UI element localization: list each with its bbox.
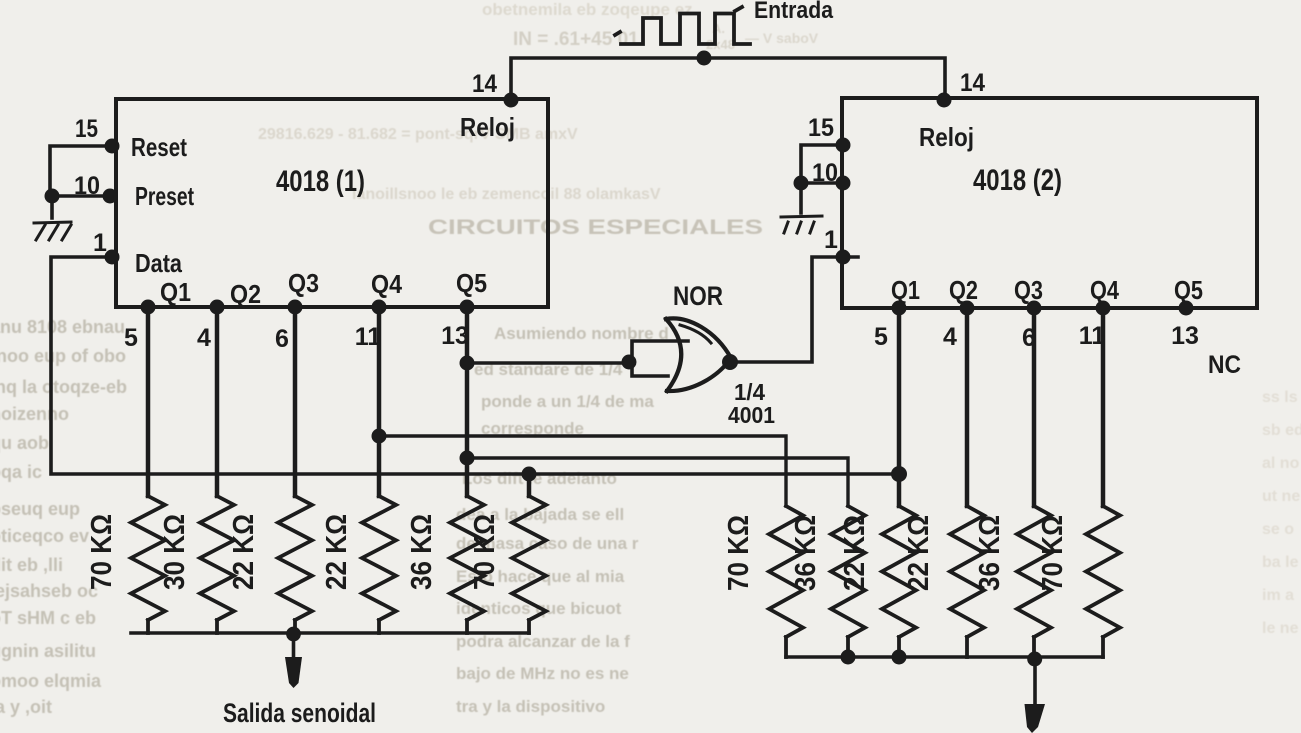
U2 output pin 11	[1079, 301, 1111, 351]
U1 output pin 13	[441, 300, 474, 351]
node sine output junction	[286, 627, 301, 642]
svg-text:36 KΩ: 36 KΩ	[406, 514, 438, 590]
svg-text:Entrada: Entrada	[754, 0, 834, 24]
U2 pin name Q5	[1174, 275, 1203, 305]
label Salida senoidal	[223, 698, 376, 728]
svg-text:ugnin asilitu: ugnin asilitu	[0, 641, 96, 661]
svg-text:1: 1	[824, 226, 838, 254]
svg-text:im a: im a	[1262, 587, 1294, 604]
U1 pin name Reloj	[460, 112, 515, 142]
svg-text:30 KΩ: 30 KΩ	[159, 514, 191, 590]
wire U2 Q4 to R12	[1101, 308, 1106, 506]
svg-text:Los dift le adelanto: Los dift le adelanto	[462, 469, 617, 488]
resistor R4 22 KΩ	[321, 496, 396, 633]
U1 pin 1 (Data)	[93, 229, 120, 265]
svg-text:5: 5	[124, 324, 138, 352]
U2 output pin 5	[874, 301, 906, 352]
svg-text:Preset: Preset	[135, 181, 194, 211]
wire NOR output to U2 pin1	[730, 257, 858, 362]
wire U1 Q2 to R2	[215, 307, 220, 496]
svg-text:70 KΩ: 70 KΩ	[723, 515, 755, 591]
svg-text:Q2: Q2	[949, 275, 978, 305]
U1 pin 14 (Reloj)	[472, 70, 519, 108]
U2 output pin 6	[1022, 301, 1041, 353]
svg-text:Q1: Q1	[160, 277, 191, 307]
svg-text:qu aob: qu aob	[0, 433, 49, 453]
svg-text:bseuq eup: bseuq eup	[0, 499, 80, 519]
U1 output pin 5	[124, 300, 155, 353]
svg-text:22 KΩ: 22 KΩ	[321, 514, 353, 590]
svg-text:CIRCUITOS ESPECIALES: CIRCUITOS ESPECIALES	[428, 216, 763, 239]
svg-text:tlit eb ,lli: tlit eb ,lli	[0, 555, 63, 575]
U1 pin name Q5	[456, 268, 487, 298]
svg-text:ut ne: ut ne	[1262, 488, 1300, 505]
svg-text:4001: 4001	[728, 402, 775, 428]
wire U1 pin15 to ground bus	[50, 146, 112, 196]
node clock input junction	[697, 51, 712, 66]
svg-text:Salida senoidal: Salida senoidal	[223, 698, 376, 728]
wire right bank bottom rail	[786, 655, 1103, 659]
svg-text:-noo eup of obo: -noo eup of obo	[0, 346, 126, 366]
U2 pin 15	[808, 114, 851, 153]
resistor R9 22 KΩ	[839, 506, 916, 657]
svg-text:29816.629 - 81.682 = pont-sqrV: 29816.629 - 81.682 = pont-sqrV SMB amxV	[258, 126, 578, 143]
U2 pin 14 (Reloj)	[937, 69, 986, 108]
svg-text:sb ed: sb ed	[1262, 422, 1301, 439]
ground symbol (U1)	[34, 222, 71, 240]
U2 pin name Q1	[891, 275, 920, 305]
node NOR input junction	[622, 355, 637, 370]
svg-text:ia y ,oit: ia y ,oit	[0, 697, 52, 717]
wire U1 Q5 to R5 and cross wire to R8	[467, 307, 848, 506]
resistor R1 70 KΩ	[86, 496, 165, 633]
label NC	[1208, 351, 1241, 379]
U2 pin 1	[824, 226, 851, 265]
svg-text:tra y la dispositivo: tra y la dispositivo	[456, 697, 605, 716]
resistor R10 22 KΩ	[903, 506, 984, 657]
svg-text:Q3: Q3	[1014, 275, 1043, 305]
U2 pin name Q4	[1090, 275, 1119, 305]
wire U2 pin15 to ground bus	[801, 145, 843, 183]
svg-text:Data: Data	[135, 248, 182, 278]
svg-text:14: 14	[960, 69, 985, 97]
U2 pin name Q2	[949, 275, 978, 305]
node right rail R9 junction	[892, 650, 907, 665]
svg-text:Q1: Q1	[891, 275, 920, 305]
svg-text:70 KΩ: 70 KΩ	[469, 514, 501, 590]
NOR gate U3 1/4 4001	[666, 281, 775, 428]
U1 pin 15 (Reset)	[75, 115, 120, 154]
U1 pin name Q3	[288, 268, 319, 298]
svg-text:anu 8108 ebnau: anu 8108 ebnau	[0, 317, 125, 337]
node U1 Q5 junction to R8	[460, 451, 475, 466]
svg-text:Reloj: Reloj	[460, 112, 515, 142]
resistor R5 36 KΩ	[406, 496, 484, 633]
svg-text:al no: al no	[1262, 455, 1300, 472]
wire R6 stub	[527, 474, 532, 496]
svg-text:Q4: Q4	[1090, 275, 1119, 305]
svg-text:.ejsahseb oc: .ejsahseb oc	[0, 581, 98, 601]
svg-text:— V saboV: — V saboV	[745, 30, 819, 46]
wire U2 pin10 to ground	[801, 183, 843, 213]
svg-text:Q5: Q5	[456, 268, 487, 298]
svg-text:70 KΩ: 70 KΩ	[1037, 515, 1069, 591]
svg-text:4: 4	[197, 324, 211, 352]
input square wave symbol	[615, 7, 750, 44]
svg-text:noizenno: noizenno	[0, 404, 69, 424]
wire U1 Q3 to R3	[293, 307, 298, 496]
node U1 Q4 junction	[372, 429, 387, 444]
svg-text:omoo elqmia: omoo elqmia	[0, 671, 102, 691]
node Data bus tap to R6	[522, 467, 537, 482]
sine output arrow	[285, 634, 302, 688]
U2 pin name Q3	[1014, 275, 1043, 305]
node NOR output	[722, 354, 738, 370]
svg-text:36 KΩ: 36 KΩ	[974, 515, 1006, 591]
ground symbol (U2)	[781, 216, 822, 233]
wire clock bus	[511, 58, 945, 100]
U2 pin name Reloj	[919, 122, 974, 152]
svg-text:bajo de MHz no es ne: bajo de MHz no es ne	[456, 664, 629, 683]
IC U2 4018 (2) body	[842, 98, 1257, 308]
svg-text:Q5: Q5	[1174, 275, 1203, 305]
wire U1 Q1 to R1	[146, 307, 151, 496]
resistor R2 30 KΩ	[159, 496, 234, 633]
wire U1 pin10 to ground	[52, 196, 110, 218]
svg-text:NOR: NOR	[673, 281, 723, 311]
node U2 ground junction	[794, 176, 809, 191]
wire U1 Q4 to R4 and cross wire to R7	[379, 307, 786, 506]
node right rail R8 junction	[841, 650, 856, 665]
U1 pin name Preset	[135, 181, 194, 211]
svg-text:Reloj: Reloj	[919, 122, 974, 152]
svg-text:1: 1	[93, 229, 107, 257]
svg-text:se o: se o	[1262, 521, 1294, 538]
svg-text:5: 5	[874, 323, 888, 351]
resistor R12 70 KΩ	[1037, 506, 1120, 657]
U1 pin name Reset	[131, 132, 187, 162]
right output arrow	[1025, 659, 1046, 733]
svg-text:oqa ic: oqa ic	[0, 462, 42, 482]
svg-text:Q4: Q4	[371, 269, 402, 299]
svg-text:ponde a un 1/4 de ma: ponde a un 1/4 de ma	[481, 392, 654, 411]
resistor R3 22 KΩ	[228, 496, 312, 633]
resistor R6 70 KΩ	[469, 496, 546, 633]
svg-text:ss ls: ss ls	[1262, 389, 1298, 406]
svg-text:14: 14	[472, 70, 497, 98]
U2 output pin 4	[943, 301, 974, 352]
NOR gate input tie	[632, 341, 688, 376]
node U1 Q5 junction to NOR	[460, 356, 475, 371]
wire U1 Q5 to NOR input	[467, 361, 630, 365]
wire U2 Q3 to R11	[1032, 308, 1037, 506]
node Data bus joins U2 Q1	[891, 466, 907, 482]
svg-text:NC: NC	[1208, 351, 1241, 379]
resistor R7 70 KΩ	[723, 506, 803, 657]
svg-text:70 KΩ: 70 KΩ	[86, 514, 118, 590]
U1 pin name Q2	[230, 279, 261, 309]
svg-text:6: 6	[275, 325, 289, 353]
svg-text:le ne: le ne	[1262, 620, 1299, 637]
U1 output pin 11	[355, 300, 387, 352]
label Entrada	[754, 0, 834, 24]
U1 pin name Q1	[160, 277, 191, 307]
node right rail output junction	[1027, 652, 1042, 667]
svg-text:36 KΩ: 36 KΩ	[790, 515, 822, 591]
wire left bank bottom rail	[131, 631, 529, 635]
svg-text:13: 13	[441, 322, 469, 350]
resistor R8 36 KΩ	[790, 506, 865, 657]
U1 pin 10 (Preset)	[74, 172, 118, 204]
svg-text:Reset: Reset	[131, 132, 187, 162]
wire U1 pin1 Data long bus to right bank	[51, 257, 899, 474]
U1 pin name Q4	[371, 269, 402, 299]
U2 pin 10	[812, 159, 851, 191]
svg-text:lanoillsnoo le eb zemencoil 88: lanoillsnoo le eb zemencoil 88 olamkasV	[352, 186, 661, 203]
U1 pin name Data	[135, 248, 182, 278]
svg-text:15: 15	[808, 114, 834, 142]
svg-text:inq la otoqze-eb: inq la otoqze-eb	[0, 377, 127, 397]
svg-text:Q2: Q2	[230, 279, 261, 309]
svg-text:15: 15	[75, 115, 98, 143]
resistor R11 36 KΩ	[974, 506, 1051, 657]
svg-text:4018 (2): 4018 (2)	[973, 164, 1062, 197]
svg-text:22 KΩ: 22 KΩ	[903, 515, 935, 591]
svg-text:22 KΩ: 22 KΩ	[228, 514, 260, 590]
IC U1 4018 (1) body	[116, 99, 548, 307]
wire U2 Q1 to R9	[897, 308, 902, 506]
svg-text:22 KΩ: 22 KΩ	[839, 515, 871, 591]
svg-text:podra alcanzar de la f: podra alcanzar de la f	[456, 632, 630, 651]
svg-text:13: 13	[1171, 322, 1199, 350]
wire U2 Q2 to R10	[965, 308, 970, 506]
U1 output pin 6	[275, 300, 302, 354]
svg-text:4: 4	[943, 323, 957, 351]
svg-text:Q3: Q3	[288, 268, 319, 298]
U2 output pin 13	[1171, 301, 1199, 351]
node U1 ground junction	[45, 189, 60, 204]
svg-text:oT sHM c eb: oT sHM c eb	[0, 608, 96, 628]
U1 output pin 4	[197, 300, 224, 353]
svg-text:oticeqco ev: oticeqco ev	[0, 526, 89, 546]
svg-text:4018 (1): 4018 (1)	[276, 165, 365, 198]
svg-text:ba le: ba le	[1262, 554, 1299, 571]
